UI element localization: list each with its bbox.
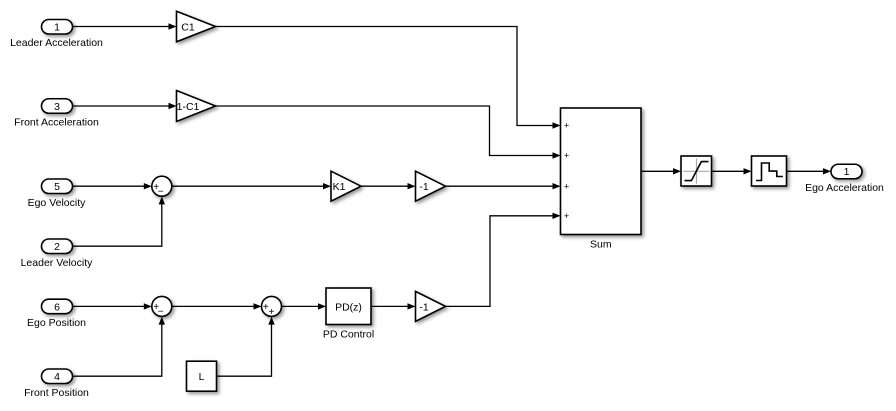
wire Zero-Order Hold to outport xyxy=(787,168,832,174)
inport 4 Front Position xyxy=(42,369,73,384)
gain 1-C1 xyxy=(177,91,216,122)
svg-text:1: 1 xyxy=(54,21,60,33)
gain K1 xyxy=(331,171,361,201)
label Leader Velocity xyxy=(21,257,94,269)
svg-text:Front Position: Front Position xyxy=(24,387,89,399)
block Sum xyxy=(561,108,642,235)
inport 3 Front Acceleration xyxy=(42,99,73,114)
label port 1 number xyxy=(54,21,60,33)
inport 6 Ego Position xyxy=(42,299,73,314)
svg-text:+: + xyxy=(564,121,569,131)
svg-text:PD(z): PD(z) xyxy=(335,301,362,313)
svg-text:K1: K1 xyxy=(333,181,346,193)
gain -1 lower xyxy=(416,291,446,321)
inport 2 Leader Velocity xyxy=(42,239,73,254)
svg-text:C1: C1 xyxy=(181,21,195,33)
label Ego Acceleration xyxy=(805,182,884,194)
svg-text:L: L xyxy=(199,371,205,383)
svg-text:Leader Velocity: Leader Velocity xyxy=(21,257,94,269)
sum junction S3 (+ +) spacing xyxy=(262,296,282,316)
gain C1 xyxy=(177,11,216,42)
wire Sum to Saturation xyxy=(641,168,681,174)
label port 6 number xyxy=(54,301,60,313)
sum junction S1 (+ -) velocity xyxy=(152,176,172,196)
wire port1 to C1 xyxy=(73,23,177,29)
label outport 1 number xyxy=(844,166,850,178)
label gain -1 upper value xyxy=(419,181,428,193)
svg-text:6: 6 xyxy=(54,301,60,313)
saturation icon xyxy=(683,159,709,184)
wire port6 to S2 xyxy=(73,303,152,309)
label gain C1 value xyxy=(181,21,195,33)
sign S3 plus bottom xyxy=(269,307,275,318)
constant L xyxy=(187,361,217,391)
sign S3 plus left xyxy=(263,302,269,313)
svg-text:Leader Acceleration: Leader Acceleration xyxy=(10,37,103,49)
svg-text:Sum: Sum xyxy=(590,239,612,251)
svg-text:−: − xyxy=(158,307,164,318)
wire K1 to -1 upper xyxy=(361,183,416,189)
label port 3 number xyxy=(54,101,60,113)
wire S1 to K1 xyxy=(172,183,331,189)
label Front Acceleration xyxy=(14,117,99,129)
sign Sum in4 plus xyxy=(564,211,569,221)
label gain 1-C1 value xyxy=(177,101,200,113)
svg-text:+: + xyxy=(564,181,569,191)
svg-text:1-C1: 1-C1 xyxy=(177,101,200,113)
svg-text:+: + xyxy=(564,151,569,161)
label PD Control xyxy=(323,329,374,341)
sign Sum in1 plus xyxy=(564,121,569,131)
wire -1 lower to Sum in4 xyxy=(446,213,561,307)
wire port4 up to S2 xyxy=(73,317,166,377)
label port 4 number xyxy=(54,371,60,383)
wire constant L up to S3 xyxy=(217,317,275,377)
label Front Position xyxy=(24,387,89,399)
wire Saturation to Zero-Order Hold xyxy=(712,168,752,174)
wire C1 to Sum in1 xyxy=(216,27,561,129)
sum junction S2 (+ -) position xyxy=(152,296,172,316)
sign Sum in3 plus xyxy=(564,181,569,191)
svg-text:3: 3 xyxy=(54,101,60,113)
wire 1-C1 to Sum in2 xyxy=(216,106,561,159)
label Sum xyxy=(590,239,612,251)
label constant L value xyxy=(199,371,205,383)
label port 5 number xyxy=(54,181,60,193)
svg-text:1: 1 xyxy=(844,166,850,178)
outport 1 Ego Acceleration xyxy=(831,164,862,179)
svg-text:-1: -1 xyxy=(419,301,428,313)
label Leader Acceleration xyxy=(10,37,103,49)
svg-text:+: + xyxy=(564,211,569,221)
wire port5 to S1 xyxy=(73,183,152,189)
label Ego Velocity xyxy=(28,197,87,209)
svg-text:2: 2 xyxy=(54,241,60,253)
sign S1 minus xyxy=(158,186,164,197)
sign S2 minus xyxy=(158,307,164,318)
sign Sum in2 plus xyxy=(564,151,569,161)
label gain -1 lower value xyxy=(419,301,428,313)
wire -1 upper to Sum in3 xyxy=(446,183,561,189)
block Saturation xyxy=(681,156,712,186)
wire S2 to S3 xyxy=(172,303,262,309)
svg-text:-1: -1 xyxy=(419,181,428,193)
svg-text:PD Control: PD Control xyxy=(323,329,374,341)
inport 1 Leader Acceleration xyxy=(42,20,73,35)
wire S3 to PD(z) xyxy=(282,303,327,309)
wire port3 to 1-C1 xyxy=(73,103,177,109)
label PD(z) xyxy=(335,301,362,313)
label gain K1 value xyxy=(333,181,346,193)
sign S1 plus xyxy=(153,182,159,193)
svg-text:+: + xyxy=(269,307,275,318)
svg-text:−: − xyxy=(158,186,164,197)
zero-order-hold icon xyxy=(756,163,783,181)
wire PD(z) to -1 lower xyxy=(371,303,416,309)
inport 5 Ego Velocity xyxy=(42,179,73,194)
sign S2 plus xyxy=(153,302,159,313)
svg-text:Ego Position: Ego Position xyxy=(27,317,86,329)
svg-text:4: 4 xyxy=(54,371,60,383)
gain -1 upper xyxy=(416,171,446,201)
svg-text:Ego Acceleration: Ego Acceleration xyxy=(805,182,884,194)
svg-text:Front Acceleration: Front Acceleration xyxy=(14,117,99,129)
svg-text:5: 5 xyxy=(54,181,60,193)
label Ego Position xyxy=(27,317,86,329)
block PD(z) PD Control xyxy=(326,288,371,325)
wire port2 up to S1 xyxy=(73,196,166,246)
label port 2 number xyxy=(54,241,60,253)
block Zero-Order Hold xyxy=(752,156,787,186)
svg-text:Ego Velocity: Ego Velocity xyxy=(28,197,87,209)
